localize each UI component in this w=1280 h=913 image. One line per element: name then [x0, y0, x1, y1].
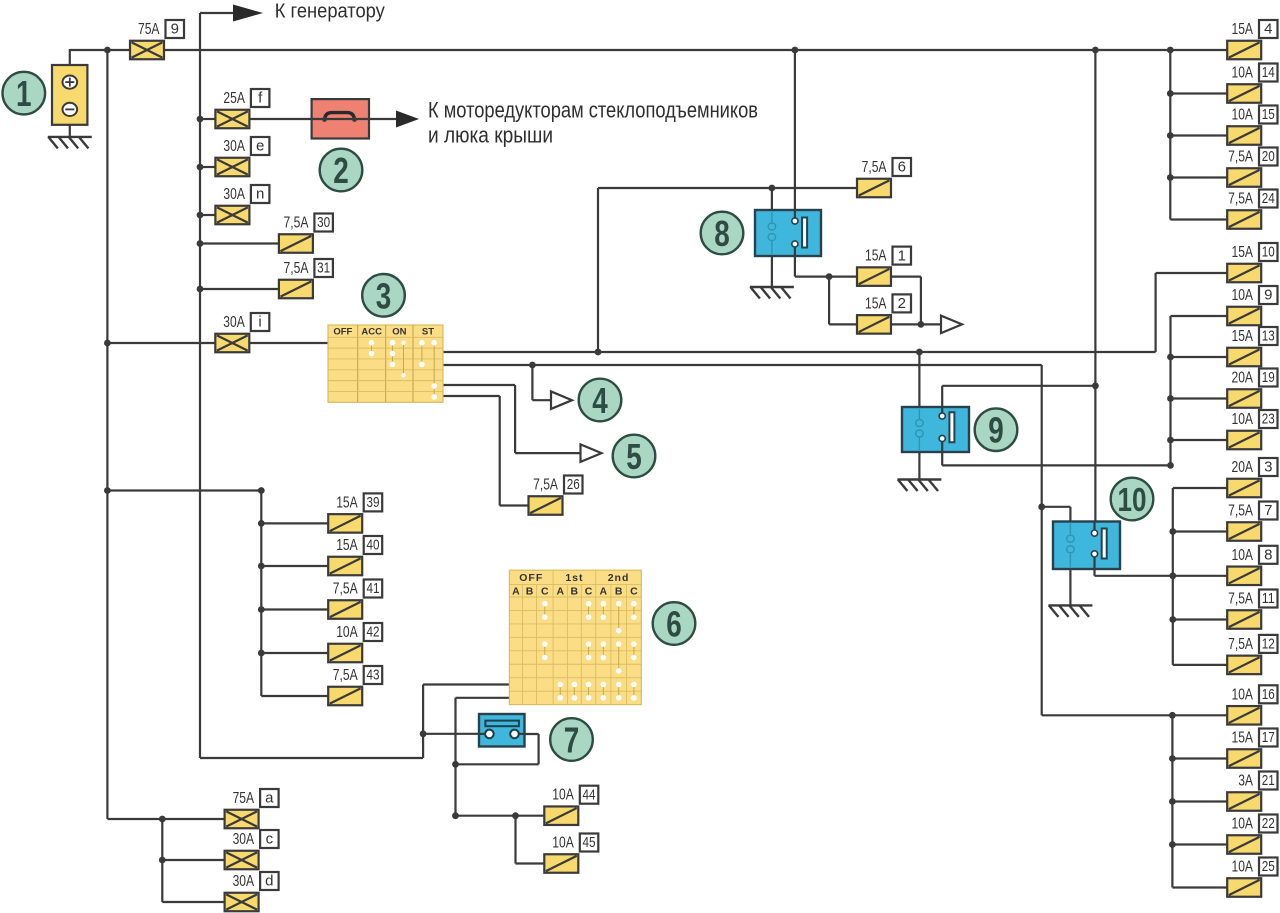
svg-text:10: 10 [1118, 481, 1147, 518]
svg-text:B: B [526, 585, 534, 597]
svg-text:5: 5 [626, 436, 642, 477]
svg-text:9: 9 [171, 21, 179, 38]
svg-text:2: 2 [898, 295, 906, 312]
svg-text:B: B [615, 585, 623, 597]
svg-text:15A: 15A [1232, 730, 1254, 747]
svg-text:7,5A: 7,5A [333, 667, 358, 684]
svg-text:9: 9 [988, 410, 1004, 451]
svg-text:30A: 30A [233, 873, 255, 890]
svg-text:75A: 75A [233, 790, 255, 807]
svg-text:A: A [600, 585, 608, 597]
svg-text:8: 8 [714, 213, 730, 254]
svg-text:43: 43 [366, 667, 379, 684]
svg-text:25A: 25A [223, 90, 245, 107]
svg-text:7: 7 [564, 719, 580, 760]
svg-text:3A: 3A [1238, 773, 1253, 790]
svg-text:8: 8 [1264, 547, 1272, 564]
svg-text:ON: ON [392, 326, 406, 337]
svg-text:15A: 15A [865, 248, 887, 265]
svg-text:7,5A: 7,5A [1228, 503, 1253, 520]
svg-text:К моторедукторам стеклоподъемн: К моторедукторам стеклоподъемников [428, 98, 758, 123]
svg-text:6: 6 [898, 159, 906, 176]
svg-text:ACC: ACC [361, 326, 382, 337]
svg-text:A: A [512, 585, 520, 597]
svg-text:25: 25 [1262, 858, 1275, 875]
svg-text:7,5A: 7,5A [1228, 636, 1253, 653]
svg-text:10A: 10A [1232, 547, 1254, 564]
svg-text:16: 16 [1262, 686, 1275, 703]
svg-text:10A: 10A [1232, 107, 1254, 124]
svg-text:15A: 15A [336, 494, 358, 511]
svg-text:1st: 1st [565, 572, 583, 584]
svg-text:4: 4 [1264, 21, 1272, 38]
svg-text:15A: 15A [1232, 328, 1254, 345]
svg-text:10: 10 [1262, 244, 1275, 261]
svg-text:10A: 10A [552, 787, 574, 804]
svg-text:и люка крыши: и люка крыши [428, 123, 553, 148]
svg-text:24: 24 [1262, 190, 1275, 207]
svg-text:К генератору: К генератору [275, 0, 386, 23]
svg-text:20A: 20A [1232, 370, 1254, 387]
svg-text:7,5A: 7,5A [533, 477, 558, 494]
svg-text:20: 20 [1262, 148, 1275, 165]
svg-text:2: 2 [333, 150, 349, 191]
svg-text:e: e [256, 138, 264, 155]
svg-text:22: 22 [1262, 815, 1275, 832]
svg-text:a: a [265, 790, 274, 807]
svg-text:39: 39 [366, 494, 379, 511]
svg-text:15: 15 [1262, 106, 1275, 123]
svg-text:OFF: OFF [333, 326, 352, 337]
svg-text:10A: 10A [1232, 816, 1254, 833]
svg-text:d: d [265, 873, 273, 890]
svg-text:30A: 30A [233, 831, 255, 848]
svg-text:12: 12 [1262, 636, 1275, 653]
svg-text:i: i [258, 314, 261, 331]
svg-text:7,5A: 7,5A [333, 581, 358, 598]
svg-text:1: 1 [16, 73, 32, 114]
svg-text:20A: 20A [1232, 459, 1254, 476]
svg-text:15A: 15A [336, 537, 358, 554]
svg-text:3: 3 [376, 275, 392, 316]
svg-text:30: 30 [317, 214, 330, 231]
svg-text:75A: 75A [138, 21, 160, 38]
svg-text:14: 14 [1262, 64, 1275, 81]
svg-text:17: 17 [1262, 729, 1275, 746]
svg-text:10A: 10A [1232, 859, 1254, 876]
svg-text:4: 4 [592, 380, 608, 421]
svg-text:10A: 10A [336, 624, 358, 641]
svg-text:41: 41 [366, 580, 379, 597]
svg-text:10A: 10A [1232, 686, 1254, 703]
svg-text:26: 26 [567, 476, 580, 493]
svg-text:n: n [256, 186, 264, 203]
svg-text:C: C [541, 585, 549, 597]
svg-text:A: A [556, 585, 564, 597]
svg-text:10A: 10A [552, 835, 574, 852]
svg-text:ST: ST [422, 326, 434, 337]
svg-text:7: 7 [1264, 502, 1272, 519]
svg-text:B: B [571, 585, 579, 597]
svg-text:7,5A: 7,5A [284, 260, 309, 277]
svg-text:7,5A: 7,5A [862, 159, 887, 176]
svg-text:15A: 15A [865, 295, 887, 312]
svg-text:30A: 30A [223, 186, 245, 203]
svg-text:7,5A: 7,5A [1228, 191, 1253, 208]
svg-text:10A: 10A [1232, 411, 1254, 428]
svg-text:3: 3 [1264, 459, 1272, 476]
svg-text:7,5A: 7,5A [1228, 149, 1253, 166]
svg-text:7,5A: 7,5A [1228, 591, 1253, 608]
svg-text:21: 21 [1262, 772, 1275, 789]
svg-text:9: 9 [1264, 287, 1272, 304]
svg-text:c: c [266, 831, 274, 848]
svg-text:C: C [585, 585, 593, 597]
svg-text:15A: 15A [1232, 244, 1254, 261]
svg-text:30A: 30A [223, 138, 245, 155]
svg-text:15A: 15A [1232, 21, 1254, 38]
svg-text:6: 6 [666, 603, 682, 644]
svg-text:19: 19 [1262, 369, 1275, 386]
svg-text:23: 23 [1262, 411, 1275, 428]
svg-text:40: 40 [366, 537, 379, 554]
svg-text:2nd: 2nd [608, 572, 630, 584]
svg-text:7,5A: 7,5A [284, 215, 309, 232]
svg-text:OFF: OFF [519, 572, 543, 584]
svg-text:31: 31 [317, 260, 330, 277]
svg-text:10A: 10A [1232, 287, 1254, 304]
svg-text:11: 11 [1262, 590, 1275, 607]
svg-text:C: C [630, 585, 638, 597]
svg-text:30A: 30A [223, 314, 245, 331]
svg-text:10A: 10A [1232, 65, 1254, 82]
svg-text:13: 13 [1262, 328, 1275, 345]
svg-text:44: 44 [583, 786, 596, 803]
svg-text:42: 42 [366, 624, 379, 641]
svg-text:1: 1 [898, 247, 906, 264]
svg-text:45: 45 [583, 834, 596, 851]
